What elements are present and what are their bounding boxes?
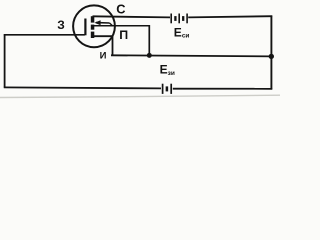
- wire right rail: [270, 16, 272, 90]
- battery E_si bar3 long: [178, 14, 180, 24]
- battery E_zi bar1 long: [162, 84, 164, 94]
- junction dot substrate-source: [147, 53, 152, 58]
- transistor VT1 circle: [73, 5, 115, 47]
- battery E_si bar1 long: [170, 14, 172, 24]
- wire top right (battery to rail): [188, 16, 272, 17]
- battery E_si bar2 short: [174, 16, 176, 21]
- wire source middle horizontal: [111, 55, 272, 56]
- wire substrate-to-source vertical (box right edge): [148, 25, 150, 55]
- channel dash source: [91, 32, 95, 38]
- junction dot source-rail: [269, 54, 274, 59]
- wire bottom right segment: [173, 88, 272, 90]
- svg-text:З: З: [57, 18, 65, 32]
- gate electrode bar: [84, 19, 86, 36]
- wire substrate lead: [94, 25, 150, 27]
- battery E_si bar5 long: [186, 14, 188, 24]
- wire left rail: [4, 34, 6, 87]
- svg-text:И: И: [100, 51, 107, 62]
- battery E_si bar4 short: [182, 16, 184, 21]
- substrate arrowhead: [94, 20, 100, 25]
- channel dash substrate: [91, 25, 95, 30]
- wire substrate jog: [110, 23, 113, 26]
- wire substrate arrow stub: [96, 22, 110, 24]
- channel dash drain: [91, 16, 95, 22]
- wire source lead inside circle: [93, 36, 113, 55]
- wire gate (left horizontal): [4, 34, 85, 36]
- battery E_zi bar2 short: [166, 86, 169, 91]
- wire drain top (circle to battery): [93, 16, 171, 17]
- svg-text:П: П: [119, 28, 128, 42]
- scan artifact line: [0, 95, 280, 97]
- svg-text:С: С: [116, 2, 125, 17]
- battery E_zi bar3 long: [170, 84, 172, 94]
- wire bottom left segment: [4, 87, 161, 88]
